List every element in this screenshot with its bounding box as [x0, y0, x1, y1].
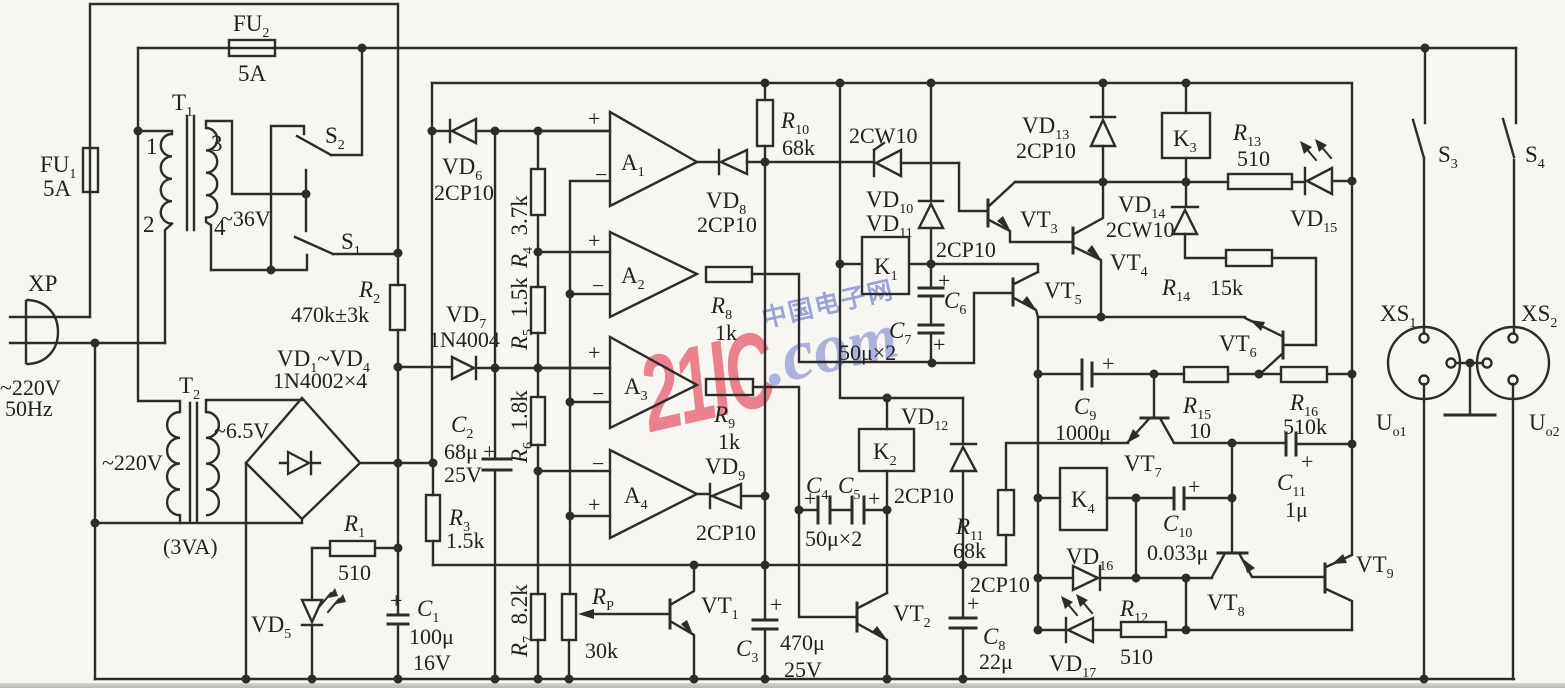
- svg-text:0.033μ: 0.033μ: [1147, 540, 1208, 565]
- svg-text:−: −: [592, 381, 604, 406]
- wire VD8 node to VD10: [765, 161, 874, 163]
- wire C4 node to VT2 base: [799, 510, 857, 617]
- wire S1 to R2 top: [333, 253, 398, 255]
- svg-text:2CP10: 2CP10: [894, 483, 954, 508]
- svg-text:A4: A4: [624, 483, 648, 513]
- capacitor C6: [919, 264, 943, 325]
- diode VD7: [398, 357, 610, 379]
- svg-text:A3: A3: [624, 374, 648, 404]
- wire VT8 base lead: [1231, 498, 1233, 551]
- diode VD16: [1073, 566, 1100, 590]
- wire VD17 row y630: [1038, 629, 1352, 631]
- svg-text:R1: R1: [343, 511, 365, 541]
- svg-text:VT8: VT8: [1207, 590, 1245, 620]
- wire K1 feed column x840: [840, 83, 963, 398]
- junction T1 primary top tap: [134, 127, 143, 136]
- svg-text:VT7: VT7: [1124, 451, 1162, 481]
- wire K4 left lead: [1038, 497, 1060, 499]
- resistor R14: [1226, 250, 1316, 345]
- wire rail drop to VD6: [431, 83, 433, 463]
- wire T2 bottom rail to bridge bottom: [95, 519, 302, 523]
- svg-text:K2: K2: [873, 439, 897, 469]
- transistor VT1 emitter: [670, 620, 694, 679]
- svg-text:+: +: [804, 486, 816, 511]
- capacitor C11: [1286, 433, 1352, 455]
- junction K1 left: [836, 260, 845, 269]
- switch S4: [1503, 48, 1516, 333]
- wire T1 primary top: [138, 131, 172, 134]
- svg-text:1.5k: 1.5k: [446, 528, 485, 553]
- svg-text:68μ +: 68μ +: [444, 439, 496, 464]
- relay K1: [862, 237, 909, 294]
- svg-text:K4: K4: [1071, 487, 1095, 517]
- transistor VT1 base bar: [669, 600, 672, 628]
- capacitor C3: [753, 565, 777, 679]
- svg-text:1k: 1k: [715, 320, 737, 345]
- junction A4 minus tap: [534, 467, 543, 476]
- wire VD16 row y578: [1038, 577, 1212, 579]
- svg-text:(3VA): (3VA): [163, 534, 218, 559]
- socket XS2 left pin: [1483, 359, 1492, 368]
- svg-text:+: +: [933, 332, 945, 357]
- wire R3 tap: [398, 463, 433, 495]
- svg-text:2CP10: 2CP10: [936, 237, 996, 262]
- transistor VT1 collector: [670, 565, 694, 605]
- transistor VT7 emitter: [1127, 420, 1148, 443]
- junction A2 minus tap: [566, 290, 575, 299]
- junction Uo1 at bus: [1420, 675, 1429, 684]
- junction bridge positive / supply column: [394, 459, 403, 468]
- transistor VT3 emitter: [989, 216, 1073, 242]
- svg-text:FU2: FU2: [233, 11, 269, 41]
- socket XS2 top pin: [1509, 334, 1518, 343]
- junction VD9 output node: [761, 492, 770, 501]
- svg-text:VT6: VT6: [1219, 331, 1257, 361]
- svg-text:Uo2: Uo2: [1529, 410, 1560, 440]
- svg-text:−: −: [592, 273, 604, 298]
- junction R15 R16 VT6 node: [1255, 370, 1264, 379]
- wire bridge negative to ground bus: [245, 463, 247, 679]
- junction bridge negative at bus: [242, 675, 251, 684]
- resistor R16: [1281, 367, 1352, 382]
- junction C3 top at rail: [761, 561, 770, 570]
- fuse FU1: [83, 148, 98, 192]
- wire K2 top lead: [886, 398, 888, 429]
- svg-text:1k: 1k: [718, 429, 740, 454]
- junction S3 tap at FU2 rail: [1421, 44, 1430, 53]
- ground symbol: [1445, 363, 1495, 415]
- svg-text:R5 1.5k: R5 1.5k: [507, 277, 536, 351]
- junction C11 left node: [1228, 439, 1237, 448]
- svg-text:C10: C10: [1163, 511, 1192, 541]
- transistor VT4 base bar: [1072, 228, 1075, 253]
- svg-text:XP: XP: [28, 271, 57, 296]
- junction supply column R1 tap: [394, 544, 403, 553]
- transistor VT2 collector: [858, 593, 887, 608]
- socket XS1 body: [1388, 327, 1460, 399]
- wire ground bus: [95, 678, 1514, 680]
- svg-text:+: +: [770, 592, 782, 617]
- resistor R11: [998, 443, 1128, 565]
- svg-text:R7 8.2k: R7 8.2k: [507, 584, 536, 658]
- transistor VT4 collector: [1074, 182, 1103, 234]
- junction VT1 emitter at bus: [690, 675, 699, 684]
- junction neutral / T2 primary bottom: [91, 519, 100, 528]
- wire T1 primary bottom return: [165, 224, 172, 343]
- svg-text:R14: R14: [1161, 275, 1190, 305]
- svg-text:1: 1: [146, 134, 158, 159]
- svg-text:10: 10: [1189, 418, 1211, 443]
- LED VD15 arrows: [1300, 139, 1331, 160]
- svg-text:C1: C1: [417, 596, 439, 626]
- junction R10 at rail: [761, 79, 770, 88]
- junction VD16 row / R12 column: [1182, 574, 1191, 583]
- svg-text:−: −: [595, 162, 607, 187]
- transistor VT5 collector: [1014, 272, 1038, 284]
- junction A2 plus tap: [534, 248, 543, 257]
- wire emitter rail y565: [433, 564, 1006, 566]
- wire C7 node to VT5 base: [932, 293, 1013, 363]
- resistor R13: [1228, 174, 1292, 189]
- junction C10 right / VT8 base: [1228, 494, 1237, 503]
- op-amp A4: [538, 450, 697, 538]
- wire XS2 output Uo2: [1512, 384, 1514, 679]
- wire secondary bottom rail: [211, 255, 307, 270]
- junction VT1 collector at rail: [690, 561, 699, 570]
- wire regulator trunk x1038: [1037, 317, 1039, 630]
- zener VD14 2CW10: [1172, 182, 1226, 258]
- plug XP: [26, 300, 58, 364]
- junction center link: [1466, 359, 1475, 368]
- junction C2 at bus: [491, 675, 500, 684]
- transistor VT7 base bar: [1141, 417, 1168, 420]
- LED VD15: [1292, 168, 1352, 194]
- junction K3 bottom at row: [1182, 178, 1191, 187]
- svg-text:22μ: 22μ: [979, 649, 1013, 674]
- capacitor C7: [919, 325, 943, 363]
- transistor VT2 emitter: [858, 624, 888, 679]
- wire K1 right lead: [909, 263, 931, 265]
- fuse FU2: [229, 40, 275, 56]
- wire K3 top lead: [1185, 83, 1187, 113]
- svg-text:2CP10: 2CP10: [697, 212, 757, 237]
- wire VD10 to VT3 base: [959, 163, 988, 211]
- wire K2 bottom lead: [886, 471, 888, 510]
- wire FU1 to XP pin 1: [89, 192, 91, 317]
- bridge rectifier VD1-VD4 diamond: [246, 398, 360, 519]
- junction VT2 emitter at bus: [883, 675, 892, 684]
- resistor chain column R4: [531, 131, 545, 252]
- wire C6 node to VT5 collector: [931, 264, 1038, 272]
- wire FU2 feed rail: [138, 47, 1516, 49]
- wire outer top rail from FU1 to S1 branch: [90, 4, 398, 253]
- svg-text:C2: C2: [451, 412, 473, 442]
- junction R7 at bus: [534, 675, 543, 684]
- svg-text:VD9: VD9: [705, 454, 745, 484]
- svg-text:68k: 68k: [782, 135, 815, 160]
- potentiometer RP body: [562, 594, 576, 679]
- svg-text:VD17: VD17: [1049, 651, 1096, 681]
- resistor R15: [1184, 367, 1281, 382]
- svg-text:VT2: VT2: [893, 601, 931, 631]
- transistor VT9 collector: [1326, 589, 1352, 630]
- wire S2 left branch: [271, 126, 304, 270]
- transformer T2 core: [190, 403, 197, 522]
- resistor R8: [706, 267, 932, 362]
- junction R3 top: [429, 459, 438, 468]
- junction VD17 row at trunk: [1034, 626, 1043, 635]
- svg-text:5A: 5A: [43, 176, 72, 201]
- junction A4 plus tap: [566, 512, 575, 521]
- svg-text:S2: S2: [325, 123, 345, 153]
- switch S3: [1413, 48, 1425, 332]
- transistor VT6 collector: [1259, 354, 1282, 375]
- junction C7 bottom / R8 feed: [928, 359, 937, 368]
- resistor R2: [390, 253, 405, 367]
- wire supply column down to C1: [397, 367, 399, 679]
- relay K4: [1060, 468, 1107, 530]
- capacitor C4: [799, 497, 830, 523]
- diode VD8: [697, 150, 765, 174]
- zener VD10 2CW10: [874, 143, 959, 176]
- socket XS1 top pin: [1420, 334, 1429, 343]
- svg-text:1μ: 1μ: [1285, 497, 1308, 522]
- transformer T1 core: [187, 116, 194, 230]
- svg-text:50Hz: 50Hz: [5, 396, 53, 421]
- svg-text:510: 510: [1120, 644, 1153, 669]
- transformer T2 primary winding: [167, 412, 180, 515]
- svg-text:XS2: XS2: [1521, 301, 1557, 331]
- svg-text:VD5: VD5: [251, 612, 291, 642]
- svg-text:T2: T2: [179, 373, 200, 403]
- wire VD9 node down to emitter rail: [764, 496, 766, 565]
- resistor R7: [531, 594, 545, 679]
- junction C8 at bus: [959, 675, 968, 684]
- junction VD13 / relay row node: [1099, 178, 1108, 187]
- wire XP pin 2 prong to T1 return: [10, 342, 165, 344]
- junction VD7 out / C2 top: [491, 364, 500, 373]
- LED VD17 arrows: [1061, 594, 1092, 615]
- wire comparator out trunk x765: [764, 162, 766, 496]
- svg-text:25V: 25V: [784, 657, 822, 682]
- wire relay row y182: [1015, 181, 1228, 183]
- svg-text:VT3: VT3: [1020, 207, 1058, 237]
- wire positive rail y83: [432, 82, 1352, 84]
- watermark red 21IC: [629, 309, 768, 439]
- capacitor C5: [830, 497, 887, 523]
- resistor R9: [706, 379, 799, 510]
- wire right trunk x1352: [1351, 84, 1353, 444]
- svg-text:+: +: [868, 486, 880, 511]
- wire emitter node rail y317: [1038, 316, 1245, 318]
- svg-text:2CP10: 2CP10: [696, 520, 756, 545]
- svg-text:510: 510: [338, 560, 371, 585]
- capacitor C2: [483, 368, 511, 679]
- svg-text:RP: RP: [591, 584, 614, 614]
- capacitor C1: [388, 615, 408, 624]
- svg-text:+: +: [588, 228, 600, 253]
- svg-text:XS1: XS1: [1380, 301, 1416, 331]
- svg-text:100μ: 100μ: [409, 624, 454, 649]
- svg-text:+: +: [588, 106, 600, 131]
- svg-text:1N4002×4: 1N4002×4: [273, 368, 367, 393]
- transformer T1 secondary winding 3-4: [206, 128, 217, 218]
- svg-text:5A: 5A: [238, 61, 267, 86]
- junction VD15 at right trunk: [1348, 177, 1357, 186]
- transformer T2 secondary winding: [206, 412, 219, 515]
- transistor VT8 collector: [1212, 555, 1224, 577]
- transistor VT7 base lead: [1153, 374, 1155, 416]
- LED VD17: [1066, 618, 1093, 642]
- svg-text:68k: 68k: [953, 538, 986, 563]
- svg-text:−: −: [592, 451, 604, 476]
- junction C11 at right trunk: [1348, 440, 1357, 449]
- svg-text:+: +: [390, 588, 402, 613]
- socket XS2 bottom pin: [1509, 376, 1518, 385]
- potentiometer RP wiper arrow: [578, 609, 670, 619]
- wire T1 pin4 to bottom rail: [206, 218, 211, 270]
- wire K2 to VT2 collector: [886, 510, 888, 593]
- resistor chain R6: [531, 368, 545, 471]
- svg-text:2: 2: [143, 212, 155, 237]
- svg-text:VT4: VT4: [1110, 250, 1148, 280]
- svg-text:R6 1.8k: R6 1.8k: [507, 390, 536, 464]
- transistor VT7 collector: [1161, 420, 1286, 443]
- wire C10 node down to VD16 row: [1135, 498, 1137, 578]
- svg-text:2CP10: 2CP10: [1016, 138, 1076, 163]
- junction VD12 bottom / C8 node: [959, 561, 968, 570]
- wire XP pin 1 prong: [10, 316, 90, 318]
- watermark blue 中国电子网: [758, 255, 966, 358]
- junction K2 top: [883, 394, 892, 403]
- svg-text:VT9: VT9: [1356, 552, 1394, 582]
- junction K3 at rail: [1182, 79, 1191, 88]
- diode VD13: [1091, 83, 1115, 182]
- junction K4 left: [1034, 494, 1043, 503]
- wire chain down to R7: [537, 471, 539, 594]
- svg-text:Uo1: Uo1: [1376, 410, 1407, 440]
- svg-text:15k: 15k: [1210, 275, 1243, 300]
- svg-text:T1: T1: [172, 90, 193, 120]
- svg-text:1000μ: 1000μ: [1055, 420, 1111, 445]
- junction R12 output node: [1182, 626, 1191, 635]
- resistor R3: [426, 495, 440, 565]
- junction C9 left node: [1034, 370, 1043, 379]
- wire T2 secondary top to bridge: [206, 400, 302, 412]
- diode VD12: [951, 398, 976, 565]
- transistor VT2 base bar: [856, 603, 859, 631]
- wire bridge positive output: [360, 462, 398, 464]
- svg-text:VT5: VT5: [1044, 278, 1082, 308]
- svg-text:A1: A1: [621, 150, 645, 180]
- junction VD16 out / C10 column: [1132, 574, 1141, 583]
- resistor chain R5: [531, 252, 545, 368]
- junction VD6 out / C2 column: [491, 127, 500, 136]
- junction RP at bus: [565, 675, 574, 684]
- scan bottom edge: [0, 683, 1565, 688]
- socket XS1 right pin: [1447, 359, 1456, 368]
- svg-text:+: +: [588, 340, 600, 365]
- wire T2 primary bottom: [179, 515, 181, 523]
- svg-text:A2: A2: [621, 263, 645, 293]
- svg-text:S3: S3: [1438, 142, 1458, 172]
- watermark blue .com script: [755, 268, 1009, 410]
- wire XS1 output Uo1: [1423, 384, 1425, 679]
- junction supply column VD7 tap: [394, 363, 403, 372]
- svg-text:S4: S4: [1525, 142, 1545, 172]
- svg-text:510k: 510k: [1283, 414, 1327, 439]
- svg-text:50μ×2: 50μ×2: [839, 340, 896, 365]
- svg-text:C3: C3: [736, 636, 758, 666]
- transistor VT9 emitter: [1326, 444, 1352, 567]
- transistor VT8 base bar: [1218, 552, 1247, 555]
- svg-text:C6: C6: [944, 288, 966, 318]
- LED VD5 arrows: [320, 588, 346, 612]
- transistor VT5 base bar: [1012, 279, 1015, 305]
- svg-text:2CW10: 2CW10: [1106, 217, 1174, 242]
- junction K2 bottom / C5 node: [883, 506, 892, 515]
- svg-text:C5: C5: [838, 473, 860, 503]
- transistor VT5 emitter: [1014, 296, 1038, 317]
- wire T1 pin3 to tap node: [206, 121, 306, 194]
- diode VD6: [432, 119, 610, 143]
- svg-text:50μ×2: 50μ×2: [805, 526, 862, 551]
- resistor R12: [1121, 622, 1166, 637]
- svg-text:510: 510: [1237, 146, 1270, 171]
- capacitor C10: [1136, 488, 1232, 509]
- svg-text:VT1: VT1: [701, 593, 739, 623]
- switch S1 blade: [295, 237, 333, 254]
- transistor VT3 base bar: [987, 200, 990, 226]
- svg-text:VD15: VD15: [1290, 206, 1337, 236]
- svg-text:16V: 16V: [413, 650, 451, 675]
- junction VD6 out / R4 chain top: [534, 127, 543, 136]
- svg-text:C11: C11: [1277, 470, 1306, 500]
- svg-text:2CP10: 2CP10: [434, 180, 494, 205]
- svg-text:2CP10: 2CP10: [970, 572, 1030, 597]
- junction VT7 base tap: [1150, 370, 1159, 379]
- wire K1 left lead: [840, 263, 862, 265]
- diode VD9: [697, 484, 765, 508]
- junction VD8 cathode node: [761, 158, 770, 167]
- junction VD16 row at trunk: [1034, 574, 1043, 583]
- svg-text:470μ: 470μ: [780, 630, 825, 655]
- junction VD7 out / R5 chain: [534, 364, 543, 373]
- transistor VT8 emitter: [1240, 555, 1325, 577]
- op-amp A3: [538, 337, 697, 428]
- wire reference column x495: [494, 131, 496, 368]
- wire live feed down to T1 and T2 primary: [138, 48, 180, 412]
- junction VD13 rail tap: [1099, 79, 1108, 88]
- junction C4 left node: [795, 506, 804, 515]
- junction K1 rail tap: [836, 79, 845, 88]
- wire S2 to FU2 rail: [331, 48, 362, 155]
- transistor VT6 emitter: [1245, 318, 1282, 336]
- junction VT4 emitter at rail: [1097, 313, 1106, 322]
- capacitor C9: [1038, 360, 1184, 389]
- LED VD5: [302, 548, 322, 679]
- switch S2 blade: [297, 136, 331, 155]
- junction XP pin2 / mains neutral: [91, 339, 100, 348]
- op-amp A1: [538, 106, 697, 206]
- junction FU2 rail / S2: [358, 44, 367, 53]
- junction K4 right / C10 node: [1132, 494, 1141, 503]
- wire K4 right lead: [1107, 497, 1136, 499]
- junction C3 at bus: [761, 675, 770, 684]
- wire feedback column x570: [570, 181, 610, 594]
- junction K1 right / C6 node: [927, 260, 936, 269]
- wire R12 column x1186: [1185, 578, 1187, 630]
